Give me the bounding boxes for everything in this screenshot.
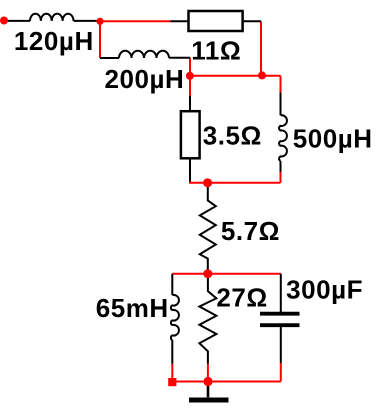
svg-text:200µH: 200µH bbox=[105, 64, 185, 94]
svg-text:500µH: 500µH bbox=[293, 124, 373, 154]
svg-text:11Ω: 11Ω bbox=[191, 36, 241, 66]
svg-text:300µF: 300µF bbox=[286, 274, 363, 304]
svg-text:120µH: 120µH bbox=[14, 26, 94, 56]
svg-text:65mH: 65mH bbox=[96, 293, 169, 323]
svg-text:3.5Ω: 3.5Ω bbox=[203, 120, 262, 150]
svg-text:5.7Ω: 5.7Ω bbox=[221, 216, 280, 246]
svg-text:27Ω: 27Ω bbox=[216, 282, 267, 312]
